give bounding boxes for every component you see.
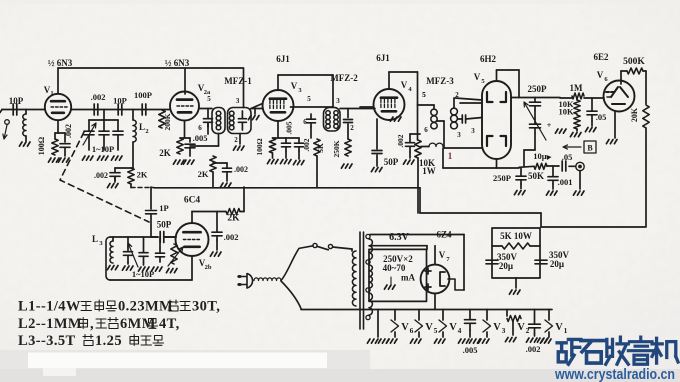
svg-text:.002: .002 bbox=[64, 124, 73, 138]
svg-text:100Ω: 100Ω bbox=[255, 138, 264, 155]
svg-text:B: B bbox=[587, 144, 593, 153]
svg-text:100P: 100P bbox=[134, 90, 152, 100]
svg-text:V: V bbox=[597, 70, 604, 80]
svg-text:5K: 5K bbox=[316, 143, 325, 153]
svg-text:1M: 1M bbox=[570, 83, 584, 93]
svg-text:.002: .002 bbox=[396, 134, 405, 147]
svg-text:10K: 10K bbox=[558, 107, 574, 117]
svg-text:.002: .002 bbox=[302, 138, 311, 151]
svg-text:L: L bbox=[92, 234, 98, 244]
svg-text:30T,: 30T, bbox=[192, 299, 220, 315]
svg-text:www.crystalradio.cn: www.crystalradio.cn bbox=[554, 366, 675, 382]
svg-text:.002: .002 bbox=[234, 165, 248, 174]
svg-text:L2--1MM: L2--1MM bbox=[18, 316, 82, 332]
svg-text:6Z4: 6Z4 bbox=[436, 230, 452, 240]
svg-text:1.25: 1.25 bbox=[95, 333, 122, 349]
svg-text:250K: 250K bbox=[332, 140, 341, 157]
svg-text:V: V bbox=[493, 322, 501, 333]
svg-text:1~10P: 1~10P bbox=[92, 144, 114, 154]
svg-text:6: 6 bbox=[303, 118, 307, 126]
svg-text:L: L bbox=[139, 122, 145, 132]
svg-text:mA: mA bbox=[401, 273, 415, 283]
svg-text:5: 5 bbox=[434, 326, 438, 335]
svg-text:3: 3 bbox=[236, 97, 240, 105]
svg-text:L3--3.5T: L3--3.5T bbox=[18, 333, 76, 349]
svg-text:V: V bbox=[401, 322, 409, 333]
svg-text:2: 2 bbox=[350, 124, 354, 132]
svg-text:3: 3 bbox=[336, 97, 340, 105]
svg-text:50P: 50P bbox=[157, 220, 172, 230]
svg-text:V: V bbox=[401, 80, 408, 90]
svg-text:20µ: 20µ bbox=[550, 259, 565, 269]
svg-text:100Ω: 100Ω bbox=[37, 136, 46, 155]
svg-text:.005: .005 bbox=[285, 121, 294, 134]
svg-text:6: 6 bbox=[198, 124, 202, 132]
svg-text:6E2: 6E2 bbox=[593, 52, 609, 62]
svg-text:5K 10W: 5K 10W bbox=[500, 231, 532, 241]
svg-text:3: 3 bbox=[457, 131, 461, 139]
svg-text:.05: .05 bbox=[596, 112, 607, 122]
svg-text:V: V bbox=[291, 81, 298, 91]
svg-text:200K: 200K bbox=[163, 113, 172, 130]
svg-text:.05: .05 bbox=[562, 152, 573, 162]
svg-text:1~10P: 1~10P bbox=[132, 269, 154, 279]
svg-text:,: , bbox=[90, 316, 94, 332]
svg-text:V: V bbox=[439, 250, 446, 260]
svg-text:20µ: 20µ bbox=[499, 261, 514, 271]
svg-text:L1--1/4W: L1--1/4W bbox=[18, 299, 81, 315]
svg-text:6: 6 bbox=[410, 326, 414, 335]
svg-text:50K: 50K bbox=[528, 171, 544, 181]
svg-text:5: 5 bbox=[422, 91, 426, 99]
svg-text:.005: .005 bbox=[193, 133, 208, 143]
svg-text:1W: 1W bbox=[422, 166, 436, 176]
svg-text:MFZ-3: MFZ-3 bbox=[426, 76, 454, 86]
svg-text:2K: 2K bbox=[137, 170, 148, 180]
svg-text:V: V bbox=[474, 72, 481, 82]
svg-text:MFZ-2: MFZ-2 bbox=[330, 73, 358, 83]
svg-text:5: 5 bbox=[307, 95, 311, 103]
svg-text:3: 3 bbox=[471, 127, 475, 135]
svg-text:10P: 10P bbox=[113, 96, 127, 106]
svg-text:.005: .005 bbox=[463, 345, 478, 355]
svg-text:.002: .002 bbox=[224, 232, 239, 242]
svg-text:1: 1 bbox=[448, 152, 453, 162]
svg-text:.002: .002 bbox=[91, 92, 106, 102]
svg-text:250P: 250P bbox=[493, 173, 511, 183]
svg-text:V: V bbox=[425, 322, 433, 333]
svg-text:2: 2 bbox=[455, 91, 459, 99]
svg-text:MFZ-1: MFZ-1 bbox=[224, 76, 252, 86]
svg-text:1: 1 bbox=[564, 326, 568, 335]
svg-text:6MM: 6MM bbox=[120, 316, 156, 332]
svg-text:2: 2 bbox=[145, 128, 148, 135]
svg-text:.002: .002 bbox=[526, 344, 541, 354]
svg-text:6C4: 6C4 bbox=[184, 196, 201, 206]
svg-text:1: 1 bbox=[50, 90, 53, 97]
svg-text:2b: 2b bbox=[205, 264, 212, 271]
svg-text:10P: 10P bbox=[9, 96, 24, 106]
svg-text:5: 5 bbox=[207, 95, 211, 103]
svg-text:20K: 20K bbox=[630, 107, 639, 122]
svg-text:.001: .001 bbox=[558, 177, 573, 187]
svg-text:0.23MM: 0.23MM bbox=[118, 299, 173, 315]
svg-text:6J1: 6J1 bbox=[376, 53, 390, 63]
svg-text:2K: 2K bbox=[227, 214, 240, 224]
svg-text:6J1: 6J1 bbox=[276, 54, 290, 64]
svg-text:500K: 500K bbox=[623, 57, 645, 67]
svg-text:50P: 50P bbox=[384, 157, 399, 167]
svg-text:V: V bbox=[449, 322, 457, 333]
svg-text:V: V bbox=[517, 322, 525, 333]
svg-text:2: 2 bbox=[234, 136, 238, 144]
svg-text:4: 4 bbox=[458, 326, 462, 335]
svg-text:½ 6N3: ½ 6N3 bbox=[165, 58, 190, 68]
svg-text:2K: 2K bbox=[198, 169, 209, 179]
svg-text:6.3V: 6.3V bbox=[389, 232, 410, 243]
svg-text:.002: .002 bbox=[94, 171, 108, 180]
svg-text:6H2: 6H2 bbox=[480, 54, 497, 64]
svg-text:4T,: 4T, bbox=[159, 316, 180, 332]
svg-text:½ 6N3: ½ 6N3 bbox=[48, 58, 73, 68]
svg-text:V: V bbox=[555, 322, 563, 333]
svg-text:3: 3 bbox=[502, 326, 506, 335]
svg-text:2: 2 bbox=[526, 326, 530, 335]
svg-text:6: 6 bbox=[424, 126, 428, 134]
svg-text:+: + bbox=[547, 121, 552, 130]
svg-text:2K: 2K bbox=[159, 148, 171, 158]
svg-text:40~70: 40~70 bbox=[383, 263, 406, 273]
svg-text:250P: 250P bbox=[528, 84, 548, 94]
svg-text:10µ: 10µ bbox=[533, 151, 547, 161]
svg-text:1P: 1P bbox=[159, 203, 168, 213]
